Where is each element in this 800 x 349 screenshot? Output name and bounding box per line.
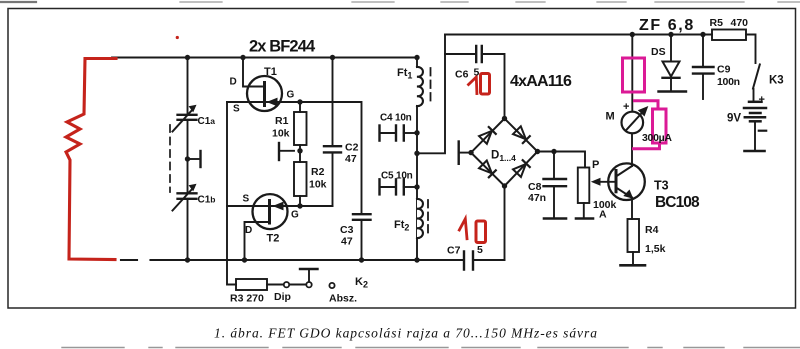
svg-text:DS: DS <box>651 46 666 58</box>
svg-text:M: M <box>606 111 615 123</box>
svg-text:47n: 47n <box>528 192 546 204</box>
svg-text:5: 5 <box>477 244 483 256</box>
svg-text:1,5k: 1,5k <box>645 243 666 255</box>
svg-text:4xAA116: 4xAA116 <box>510 73 572 90</box>
svg-text:47: 47 <box>341 236 353 248</box>
svg-text:C3: C3 <box>340 224 354 236</box>
svg-text:BC108: BC108 <box>655 194 700 211</box>
svg-text:S: S <box>243 194 250 205</box>
svg-text:R2: R2 <box>311 166 325 178</box>
svg-text:R4: R4 <box>645 224 659 236</box>
svg-text:470: 470 <box>731 17 749 29</box>
svg-text:9V: 9V <box>727 113 741 125</box>
svg-text:C6: C6 <box>455 69 469 81</box>
svg-text:47: 47 <box>345 153 357 165</box>
svg-text:C1b: C1b <box>198 195 216 206</box>
svg-text:ZF 6,8: ZF 6,8 <box>639 17 695 34</box>
svg-text:10k: 10k <box>272 128 290 140</box>
svg-text:A: A <box>599 209 607 221</box>
svg-text:C7: C7 <box>447 245 461 257</box>
svg-text:D: D <box>245 225 252 236</box>
svg-text:Ft2: Ft2 <box>394 219 409 233</box>
svg-text:300µA: 300µA <box>642 132 672 144</box>
svg-text:R3 270: R3 270 <box>230 293 264 305</box>
svg-text:+: + <box>623 101 629 113</box>
svg-text:T3: T3 <box>654 179 669 193</box>
svg-text:C4 10n: C4 10n <box>380 113 412 124</box>
svg-text:C9: C9 <box>717 64 731 76</box>
svg-text:5: 5 <box>474 67 480 79</box>
svg-text:P: P <box>592 159 599 171</box>
svg-text:100n: 100n <box>717 76 740 88</box>
svg-text:+: + <box>759 94 765 106</box>
svg-text:1. ábra. FET GDO kapcsolási ra: 1. ábra. FET GDO kapcsolási rajza a 70..… <box>214 326 598 341</box>
svg-text:K2: K2 <box>355 276 368 290</box>
svg-text:G: G <box>287 90 295 101</box>
svg-text:R5: R5 <box>710 17 724 29</box>
svg-text:D: D <box>230 77 237 88</box>
svg-text:R1: R1 <box>275 115 289 127</box>
svg-text:S: S <box>233 104 240 115</box>
svg-text:2x BF244: 2x BF244 <box>249 38 316 56</box>
svg-text:T1: T1 <box>264 66 277 78</box>
svg-text:G: G <box>291 210 299 221</box>
svg-text:Ft1: Ft1 <box>397 67 412 81</box>
svg-text:D1...4: D1...4 <box>491 150 516 164</box>
svg-text:C5 10n: C5 10n <box>381 171 413 182</box>
svg-text:C1a: C1a <box>198 116 216 127</box>
svg-text:K3: K3 <box>769 75 784 87</box>
svg-text:Absz.: Absz. <box>329 293 357 305</box>
svg-text:Dip: Dip <box>274 291 291 303</box>
svg-text:T2: T2 <box>267 233 280 245</box>
svg-text:C2: C2 <box>345 142 359 154</box>
svg-text:10k: 10k <box>309 179 327 191</box>
